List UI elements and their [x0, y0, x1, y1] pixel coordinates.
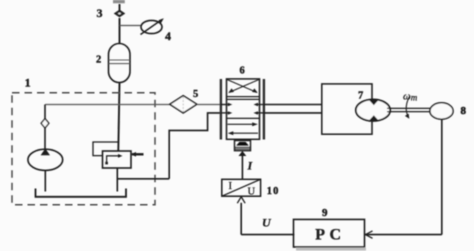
I/U converter 10 box [222, 179, 261, 196]
svg-text:U: U [262, 215, 272, 229]
wire: vent stem [119, 4, 121, 11]
svg-text:3: 3 [97, 6, 103, 20]
wire: return line tee [117, 178, 169, 180]
pump P1 circle [28, 149, 63, 170]
rotation arrow [406, 97, 409, 118]
svg-text:10: 10 [267, 186, 280, 197]
valve 6 centre position box [227, 98, 260, 100]
wire: pump outlet main pressure line [45, 104, 170, 106]
relief valve spring [132, 153, 144, 155]
svg-text:I: I [229, 181, 233, 192]
wire: U signal up [240, 203, 242, 235]
svg-text:8: 8 [461, 105, 467, 117]
svg-text:2: 2 [96, 55, 101, 66]
vent symbol 3 top bar [113, 0, 125, 3]
speed sensor 8 [430, 103, 453, 119]
valve 6 left rail [220, 79, 222, 140]
wire: check valve to pump [44, 128, 46, 150]
wire: sensor to PC [365, 234, 442, 236]
wire: accumulator down to relief valve [118, 83, 119, 152]
wire: valve return path [169, 113, 221, 179]
motor shaft [387, 107, 431, 109]
wire: PC to converter [241, 234, 294, 236]
wire: valve to motor loop bottom [264, 112, 322, 114]
wire: down to check valve [44, 105, 46, 120]
svg-text:1: 1 [25, 77, 31, 89]
valve 6 body [227, 79, 260, 139]
wire: filter to valve [197, 104, 227, 106]
wire: tee to gauge [120, 25, 142, 27]
svg-text:ωm: ωm [403, 90, 418, 102]
svg-text:PC: PC [315, 227, 345, 244]
check valve diamond [41, 119, 49, 128]
gauge needle [141, 20, 163, 35]
accumulator separator lines [109, 59, 130, 61]
relief valve pilot line [93, 142, 119, 156]
wire: I signal [241, 156, 243, 179]
arrow into solenoid [239, 151, 247, 156]
valve 6 bottom arrows section [228, 123, 255, 125]
arrow into converter [237, 197, 245, 203]
dashed enclosure box 1 [12, 93, 155, 205]
wire: pump to tank [44, 170, 46, 191]
wire: valve to motor loop top [264, 104, 322, 106]
svg-text:5: 5 [193, 89, 198, 100]
svg-text:7: 7 [358, 91, 363, 102]
gauge U4 circle [141, 20, 162, 33]
svg-text:4: 4 [165, 29, 171, 43]
wire: vent to accumulator [119, 18, 121, 44]
PC box 9 [294, 219, 365, 247]
wire: sensor drop [441, 119, 443, 234]
motor triangles [369, 100, 379, 106]
motor 7 circle [356, 99, 390, 121]
svg-text:9: 9 [322, 207, 328, 219]
valve 6 crossed arrows section [227, 96, 260, 98]
accumulator 2 body [109, 44, 131, 83]
valve 6 port stubs [221, 104, 230, 106]
filter 5 diamond [170, 96, 197, 113]
pump triangle [41, 149, 50, 156]
valve 3 diamond [115, 10, 125, 17]
wire: relief valve drain to tank [116, 168, 118, 192]
tank symbol [36, 189, 127, 197]
relief valve body [103, 151, 132, 168]
proportional solenoid [235, 141, 251, 151]
valve 6 right rail [263, 79, 265, 140]
svg-text:U: U [248, 186, 256, 197]
motor supply loop [322, 84, 372, 134]
svg-text:6: 6 [240, 66, 245, 77]
relief valve internal arrow [105, 162, 108, 165]
